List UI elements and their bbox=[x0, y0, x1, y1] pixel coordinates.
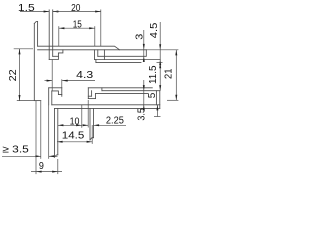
up-wall outer bbox=[48, 88, 50, 105]
dim 4.3 line left bbox=[45, 80, 53, 82]
dim 2.25 arrow right bbox=[94, 124, 100, 126]
right wall inner bbox=[155, 91, 157, 105]
L-foot right outer bbox=[94, 50, 96, 60]
wall W3 tip chamfer bbox=[55, 155, 58, 157]
dim 4.5 arrow bottom bbox=[159, 60, 161, 66]
dim 2.25 line right bbox=[94, 124, 127, 126]
dim 4.3 arrow right bbox=[62, 80, 68, 82]
dim 3.5b line bbox=[156, 105, 158, 117]
dim 1.5 line right bbox=[53, 11, 59, 13]
tongue bottom and right cap bbox=[98, 50, 147, 57]
tongue left vertical bbox=[103, 50, 105, 60]
dim 1.5 arrow left bbox=[44, 11, 50, 13]
cluster line 96.2 bbox=[88, 95, 91, 97]
dim 15 arrow left bbox=[59, 27, 65, 29]
dim 14.5 ext right bbox=[91, 125, 93, 144]
up-hook lip right bbox=[61, 88, 63, 97]
dim ge3.5 line left bbox=[2, 155, 41, 157]
dim 21 arrow bottom bbox=[175, 95, 177, 101]
dim 4.3 line right bbox=[62, 80, 95, 82]
dim 14.5 arrow left bbox=[57, 141, 63, 143]
dim 10 line bbox=[58, 124, 82, 126]
dim 9 ext right bbox=[57, 159, 59, 174]
dim 4.3 ext right bbox=[61, 79, 63, 87]
wall W4 left bbox=[89, 108, 91, 139]
dim 14.5 arrow right bbox=[87, 141, 93, 143]
dim 2.25 ext left bbox=[87, 100, 89, 128]
up-hook notch bbox=[52, 91, 62, 95]
dim 21 ext bottom bbox=[167, 99, 178, 101]
cluster vertical 95.5 bbox=[95, 94, 97, 99]
svg-text:1.5: 1.5 bbox=[18, 3, 35, 14]
L-foot right inner bbox=[97, 50, 99, 57]
mid step line lower bbox=[102, 90, 160, 92]
svg-text:14.5: 14.5 bbox=[62, 131, 85, 142]
dim 3 arrow bottom bbox=[143, 56, 145, 62]
wall W3 inner bbox=[57, 108, 59, 154]
svg-text:22: 22 bbox=[8, 69, 19, 81]
wall W1 right bbox=[37, 22, 39, 47]
wall W1 left bbox=[33, 24, 35, 101]
wire bbox=[34, 10, 162, 157]
dim 21 line bbox=[175, 50, 177, 101]
right wall outer bbox=[159, 91, 161, 109]
svg-text:≥ 3.5: ≥ 3.5 bbox=[2, 144, 29, 155]
mid step vertical bbox=[101, 88, 103, 91]
dim 3 line bbox=[143, 30, 145, 62]
band2 left stub bbox=[95, 60, 97, 63]
dim ge3.5 arrow right bbox=[49, 155, 55, 157]
lower rail bottom bbox=[55, 107, 160, 109]
dim 11.5 line bbox=[159, 63, 161, 91]
dim ge3.5 arrow left bbox=[35, 155, 41, 157]
dim 22 arrow top bbox=[19, 49, 21, 55]
dim 3.5b ext bbox=[154, 116, 161, 118]
svg-text:21: 21 bbox=[164, 68, 175, 79]
dim 5 line bbox=[143, 80, 145, 111]
dim 4.5 arrow top bbox=[159, 44, 161, 50]
band2 bottom bbox=[96, 62, 141, 64]
dim 15 arrow right bbox=[89, 27, 95, 29]
dim 3.5b arrow top bbox=[156, 105, 158, 111]
dim 9 ext left bbox=[35, 101, 37, 175]
top rail bottom edge bbox=[38, 49, 147, 51]
wall W2 outer bbox=[48, 10, 50, 60]
dim 3 arrow top bbox=[143, 44, 145, 50]
dim 10 arrow left bbox=[58, 124, 64, 126]
band2 top bbox=[95, 59, 161, 61]
wall W4 right bbox=[93, 108, 95, 137]
dim 5 arrow bottom bbox=[143, 105, 145, 111]
svg-text:3.5: 3.5 bbox=[136, 108, 147, 121]
svg-text:11.5: 11.5 bbox=[148, 65, 159, 84]
dim 15 ext left bbox=[58, 26, 60, 46]
top rail top edge with chamfer bbox=[38, 46, 120, 50]
dim 21 arrow top bbox=[175, 50, 177, 56]
svg-text:10: 10 bbox=[70, 117, 80, 128]
wall W1 bottom cap + foot bbox=[34, 100, 41, 102]
W2 J-hook bottom bbox=[49, 50, 63, 60]
up-wall inner bbox=[51, 91, 53, 105]
dim 11.5 arrow top bbox=[159, 63, 161, 69]
dim ge3.5 ext left bbox=[40, 101, 42, 159]
svg-text:15: 15 bbox=[73, 19, 82, 30]
dim 20 arrow right bbox=[95, 11, 101, 13]
wall W3 outer bbox=[54, 108, 56, 157]
rail bottom ext right bbox=[146, 49, 178, 51]
dim 10 ext right bbox=[81, 105, 83, 128]
dim 2.25 line left bbox=[83, 124, 88, 126]
svg-text:9: 9 bbox=[39, 161, 44, 172]
dim 14.5 line bbox=[57, 141, 92, 143]
dim 5 arrow top bbox=[143, 85, 145, 91]
up-hook top bbox=[49, 87, 62, 89]
dim 9 arrow left bbox=[36, 171, 42, 173]
dim 20 ext right bbox=[100, 10, 102, 47]
dim 10 arrow right bbox=[76, 124, 82, 126]
dim 9 arrow right bbox=[52, 171, 58, 173]
dim 20 line bbox=[53, 11, 101, 13]
dim 22 ext top bbox=[14, 48, 33, 50]
dim 4.3 ext left bbox=[51, 60, 53, 91]
ext for 11.5 top bbox=[157, 62, 163, 64]
wall W4 tip chamfer bbox=[90, 138, 94, 140]
W2 J-hook notch bbox=[53, 55, 59, 57]
dim ge3.5 line right bbox=[49, 155, 58, 157]
dim 15 line bbox=[59, 27, 95, 29]
dim 1.5 arrow right bbox=[53, 11, 59, 13]
svg-text:20: 20 bbox=[71, 3, 81, 14]
cluster vertical 91.3 bbox=[91, 91, 93, 97]
wall W1 tip chamfer bbox=[34, 22, 37, 24]
dim 1.5 line left bbox=[20, 11, 49, 13]
dim ge3.5 ext right bbox=[48, 105, 50, 159]
dim 11.5 arrow bottom bbox=[159, 85, 161, 91]
dim 22 ext bottom bbox=[17, 100, 35, 102]
svg-text:4.5: 4.5 bbox=[149, 22, 160, 38]
dim 9 line bbox=[31, 171, 62, 173]
dim 4.3 arrow left bbox=[47, 80, 53, 82]
wall W2 inner bbox=[52, 10, 54, 56]
cluster bottom bbox=[88, 98, 95, 100]
svg-text:2.25: 2.25 bbox=[106, 116, 124, 127]
svg-text:4.3: 4.3 bbox=[76, 70, 94, 81]
mid step line upper bbox=[88, 87, 152, 89]
svg-text:5: 5 bbox=[147, 92, 158, 98]
dim 15 ext right bbox=[94, 26, 96, 46]
dim 2.25 arrow left bbox=[83, 124, 89, 126]
mid line 93.5 bbox=[96, 93, 149, 95]
dim 4.5 line bbox=[159, 22, 161, 65]
dim 22 line bbox=[19, 49, 21, 101]
dim 22 arrow bottom bbox=[19, 95, 21, 101]
cluster vertical 88.3 bbox=[87, 88, 89, 99]
lower rail top bbox=[52, 104, 160, 106]
wall W2 ext top bbox=[49, 9, 53, 12]
